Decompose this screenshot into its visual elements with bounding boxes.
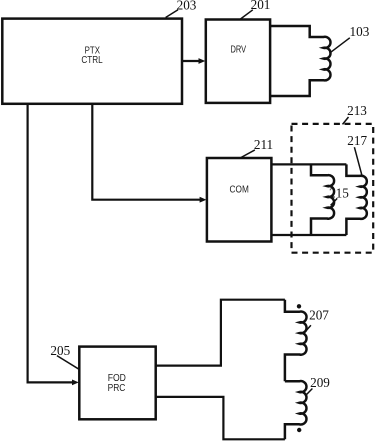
svg-text:203: 203 bbox=[177, 0, 197, 12]
svg-text:205: 205 bbox=[50, 343, 70, 358]
svg-text:217: 217 bbox=[347, 133, 367, 148]
polarity dot coil 207 bbox=[297, 304, 301, 308]
block PTX CTRL (transmitter controller) bbox=[2, 19, 182, 104]
leader line 207 bbox=[303, 325, 311, 334]
svg-text:211: 211 bbox=[254, 137, 273, 152]
svg-text:COM: COM bbox=[230, 185, 249, 196]
inductor coil 103 (TX coil) with connecting wires bbox=[270, 26, 330, 96]
svg-text:215: 215 bbox=[329, 185, 349, 200]
block FOD PRC (foreign object detection processor) bbox=[79, 347, 155, 420]
leader line 217 bbox=[354, 147, 362, 177]
svg-text:201: 201 bbox=[251, 0, 271, 12]
polarity dot coil 209 bbox=[297, 428, 301, 432]
inductor coil 215 (primary winding) bbox=[311, 164, 334, 235]
leader line 203 bbox=[166, 10, 178, 18]
dashed box 213 (coupling circuit) bbox=[292, 124, 374, 253]
inductor coil 209 (sense coil) bbox=[285, 381, 307, 439]
wire COM to transformer top rail bbox=[271, 163, 346, 165]
wire COM to transformer bottom rail bbox=[271, 234, 346, 236]
leader line 215 bbox=[331, 198, 338, 205]
wire FOD PRC to coil 207 top bbox=[156, 300, 285, 366]
leader line 213 bbox=[343, 117, 349, 124]
leader line 209 bbox=[305, 389, 312, 397]
svg-text:209: 209 bbox=[310, 375, 330, 390]
inductor coil 207 (sense coil) bbox=[285, 300, 307, 382]
wire PTX CTRL to COM with arrow bbox=[92, 104, 206, 203]
leader line 205 bbox=[57, 356, 79, 370]
wire FOD PRC to coil 209 bottom bbox=[156, 397, 285, 439]
svg-text:CTRL: CTRL bbox=[81, 55, 103, 66]
svg-text:207: 207 bbox=[309, 307, 329, 322]
wire PTX CTRL to DRV with arrow bbox=[182, 58, 205, 64]
svg-text:PRC: PRC bbox=[108, 383, 126, 394]
leader line 201 bbox=[241, 10, 253, 19]
block DRV (driver) bbox=[206, 20, 270, 103]
svg-text:DRV: DRV bbox=[231, 45, 247, 56]
svg-text:103: 103 bbox=[350, 24, 370, 39]
block COM (communication) bbox=[207, 158, 272, 242]
wire PTX CTRL to FOD PRC with arrow bbox=[28, 104, 79, 386]
leader line 103 bbox=[330, 38, 350, 53]
inductor coil 217 (secondary winding) bbox=[346, 164, 366, 235]
svg-text:213: 213 bbox=[347, 103, 367, 118]
leader line 211 bbox=[241, 150, 255, 158]
